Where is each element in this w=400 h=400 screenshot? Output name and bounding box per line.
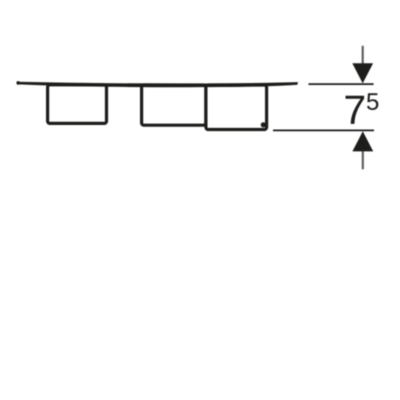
dimension value 7 bbox=[346, 96, 365, 124]
upper arrowhead pointing down bbox=[352, 63, 373, 83]
lower dimension line bbox=[273, 129, 374, 131]
box 1 (left mounting box outline) bbox=[48, 85, 107, 124]
box 3 (right deeper box outline) bbox=[206, 85, 267, 130]
cover plate profile (curved top bar) bbox=[17, 82, 299, 88]
lower arrow tail bbox=[362, 151, 364, 170]
upper arrow tail bbox=[362, 46, 364, 65]
fastening dot inside box 3 bbox=[261, 122, 266, 127]
lower arrowhead pointing up bbox=[352, 131, 373, 151]
dimension value superscript 5 bbox=[367, 93, 378, 110]
upper dimension line bbox=[309, 83, 374, 85]
box 2 (middle mounting box outline) bbox=[142, 85, 206, 125]
cover plate left tip blob bbox=[16, 81, 20, 85]
